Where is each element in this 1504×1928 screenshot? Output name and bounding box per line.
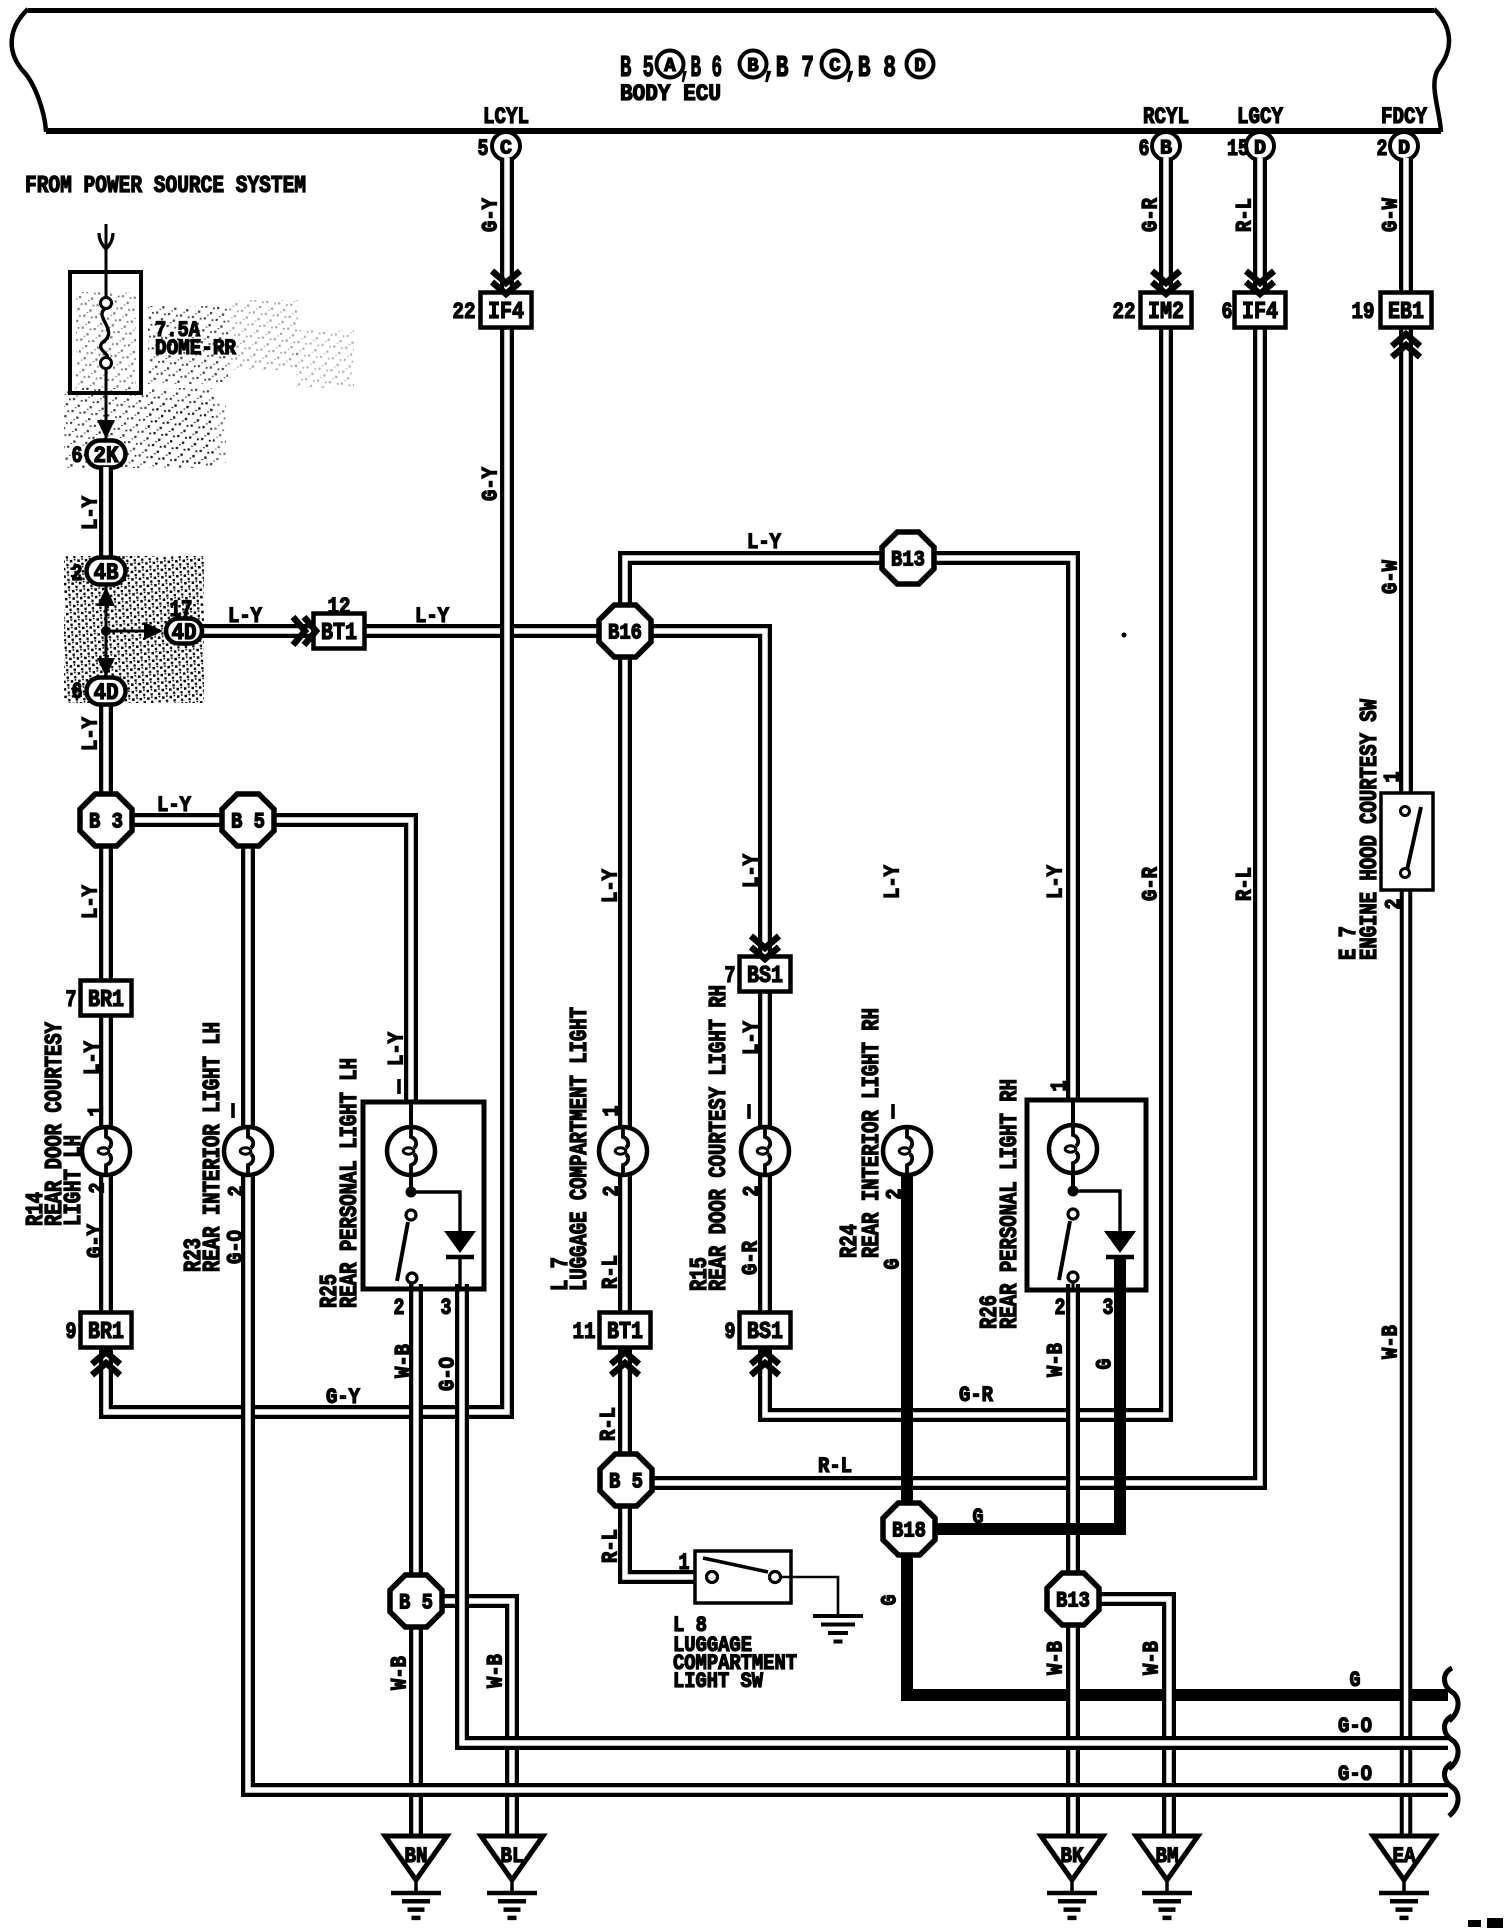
svg-text:17: 17	[170, 597, 193, 623]
svg-text:L-Y: L-Y	[81, 1040, 106, 1075]
svg-text:2: 2	[86, 1183, 111, 1194]
svg-text:DOME-RR: DOME-RR	[155, 336, 237, 361]
svg-text:L-Y: L-Y	[79, 884, 104, 919]
svg-text:G-R: G-R	[1139, 866, 1164, 901]
svg-text:REAR PERSONAL LIGHT RH: REAR PERSONAL LIGHT RH	[997, 1079, 1024, 1329]
svg-text:2: 2	[883, 1189, 908, 1200]
svg-text:3: 3	[441, 1295, 452, 1321]
svg-text:2: 2	[1382, 899, 1407, 910]
svg-text:12: 12	[328, 594, 351, 620]
svg-text:6: 6	[72, 679, 83, 705]
svg-text:4D: 4D	[94, 680, 119, 706]
svg-text:,B 8: ,B 8	[845, 51, 896, 86]
svg-text:B 5: B 5	[231, 810, 265, 835]
svg-text:ENGINE HOOD COURTESY SW: ENGINE HOOD COURTESY SW	[1357, 699, 1384, 960]
svg-text:6: 6	[1222, 299, 1233, 325]
svg-text:B13: B13	[891, 548, 925, 573]
svg-text:B 5: B 5	[399, 1591, 433, 1616]
svg-text:1: 1	[1048, 1081, 1073, 1092]
svg-text:2: 2	[600, 1186, 625, 1197]
svg-text:G-O: G-O	[1338, 1714, 1372, 1739]
svg-text:22: 22	[1113, 299, 1136, 325]
svg-text:L-Y: L-Y	[881, 864, 906, 899]
svg-text:C: C	[500, 138, 512, 161]
svg-text:IF4: IF4	[1242, 299, 1278, 326]
svg-text:R-L: R-L	[1233, 198, 1258, 232]
svg-text:EB1: EB1	[1388, 299, 1424, 326]
svg-text:IF4: IF4	[488, 299, 524, 326]
svg-text:A: A	[664, 55, 676, 77]
svg-text:G-O: G-O	[224, 1230, 249, 1264]
svg-text:B: B	[1160, 138, 1172, 161]
svg-text:LIGHT SW: LIGHT SW	[673, 1669, 764, 1694]
svg-text:REAR INTERIOR LIGHT LH: REAR INTERIOR LIGHT LH	[200, 1022, 227, 1272]
svg-text:L-Y: L-Y	[228, 604, 263, 629]
svg-text:B13: B13	[1056, 1589, 1090, 1614]
svg-text:BT1: BT1	[607, 1319, 643, 1346]
svg-text:9: 9	[725, 1319, 736, 1345]
svg-text:9: 9	[66, 1319, 77, 1345]
svg-text:IM2: IM2	[1148, 299, 1184, 326]
svg-text:L-Y: L-Y	[747, 530, 782, 555]
svg-text:G-O: G-O	[1338, 1762, 1372, 1787]
svg-text:REAR INTERIOR LIGHT RH: REAR INTERIOR LIGHT RH	[859, 1008, 886, 1258]
svg-text:1: 1	[600, 1106, 625, 1117]
svg-text:D: D	[914, 55, 925, 77]
svg-text:6: 6	[72, 443, 83, 469]
svg-text:BM: BM	[1156, 1844, 1179, 1869]
svg-text:1: 1	[85, 1106, 110, 1117]
svg-text:D: D	[1254, 138, 1266, 161]
svg-text:L-Y: L-Y	[415, 604, 450, 629]
svg-text:G-R: G-R	[1139, 197, 1164, 232]
svg-text:4B: 4B	[94, 560, 119, 586]
svg-text:G-R: G-R	[739, 1240, 764, 1275]
svg-text:G: G	[878, 1595, 903, 1606]
svg-text:BR1: BR1	[88, 987, 124, 1014]
svg-text:2: 2	[225, 1186, 250, 1197]
svg-text:LUGGAGE COMPARTMENT LIGHT: LUGGAGE COMPARTMENT LIGHT	[567, 1007, 594, 1291]
svg-text:B16: B16	[608, 621, 642, 646]
svg-text:R-L: R-L	[818, 1454, 852, 1479]
svg-text:2: 2	[1377, 136, 1388, 162]
svg-text:W-B: W-B	[1044, 1641, 1069, 1675]
svg-text:4D: 4D	[172, 620, 197, 646]
svg-text:G: G	[973, 1505, 984, 1530]
svg-text:5: 5	[478, 136, 489, 162]
svg-text:REAR PERSONAL LIGHT LH: REAR PERSONAL LIGHT LH	[337, 1058, 364, 1308]
svg-text:W-B: W-B	[484, 1654, 509, 1688]
svg-text:G-Y: G-Y	[326, 1385, 361, 1410]
svg-text:G-W: G-W	[1379, 559, 1404, 594]
svg-text:REAR DOOR COURTESY LIGHT RH: REAR DOOR COURTESY LIGHT RH	[706, 985, 733, 1291]
svg-text:L-Y: L-Y	[385, 1031, 410, 1066]
svg-text:BR1: BR1	[88, 1319, 124, 1346]
svg-text:BN: BN	[405, 1844, 428, 1869]
svg-text:L-Y: L-Y	[157, 793, 192, 818]
svg-text:G: G	[881, 1259, 906, 1270]
svg-text:G-Y: G-Y	[84, 1223, 109, 1258]
svg-text:BL: BL	[501, 1844, 524, 1869]
svg-text:2: 2	[1055, 1295, 1066, 1321]
svg-text:19: 19	[1352, 299, 1375, 325]
svg-text:B 3: B 3	[89, 810, 123, 835]
svg-text:W-B: W-B	[392, 1344, 417, 1378]
svg-text:,B 7: ,B 7	[763, 51, 814, 86]
svg-text:BK: BK	[1061, 1844, 1085, 1869]
svg-text:W-B: W-B	[388, 1656, 413, 1690]
svg-text:R-L: R-L	[599, 1255, 624, 1289]
svg-text:B18: B18	[892, 1519, 926, 1544]
svg-text:L-Y: L-Y	[79, 716, 104, 751]
svg-text:G: G	[1350, 1668, 1361, 1693]
svg-text:D: D	[1398, 138, 1410, 161]
svg-text:LGCY: LGCY	[1237, 104, 1283, 130]
svg-text:22: 22	[453, 299, 476, 325]
svg-text:W-B: W-B	[1140, 1641, 1165, 1675]
svg-text:RCYL: RCYL	[1143, 104, 1189, 130]
svg-text:G-W: G-W	[1379, 197, 1404, 232]
svg-text:EA: EA	[1393, 1844, 1417, 1869]
svg-text:G-Y: G-Y	[479, 197, 504, 232]
svg-text:11: 11	[573, 1319, 596, 1345]
svg-text:1: 1	[679, 1550, 690, 1576]
svg-text:LCYL: LCYL	[483, 104, 529, 130]
svg-text:BS1: BS1	[747, 963, 783, 990]
svg-text:LIGHT LH: LIGHT LH	[61, 1135, 88, 1226]
svg-text:G: G	[1093, 1359, 1118, 1370]
svg-text:BT1: BT1	[321, 620, 357, 647]
svg-text:W-B: W-B	[1044, 1343, 1069, 1377]
svg-text:R-L: R-L	[597, 1407, 622, 1441]
svg-text:6: 6	[1139, 136, 1150, 162]
svg-text:7: 7	[66, 987, 77, 1013]
svg-text:G-O: G-O	[436, 1357, 461, 1391]
svg-text:BODY ECU: BODY ECU	[620, 81, 721, 107]
svg-text:1: 1	[1381, 772, 1406, 783]
svg-text:W-B: W-B	[1379, 1325, 1404, 1359]
svg-text:3: 3	[1103, 1295, 1114, 1321]
svg-text:C: C	[829, 55, 840, 77]
svg-text:2K: 2K	[94, 443, 119, 469]
svg-text:BS1: BS1	[747, 1319, 783, 1346]
svg-text:G-R: G-R	[959, 1383, 994, 1408]
svg-text:B: B	[747, 55, 758, 77]
svg-text:2: 2	[740, 1186, 765, 1197]
svg-text:B 5: B 5	[609, 1470, 643, 1495]
svg-text:15: 15	[1227, 136, 1249, 162]
svg-text:L-Y: L-Y	[1044, 864, 1069, 899]
svg-text:2: 2	[394, 1295, 405, 1321]
svg-text:R-L: R-L	[1233, 867, 1258, 901]
svg-text:L-Y: L-Y	[740, 853, 765, 888]
svg-text:FROM POWER SOURCE SYSTEM: FROM POWER SOURCE SYSTEM	[25, 173, 306, 200]
svg-text:L-Y: L-Y	[740, 1020, 765, 1055]
svg-text:R-L: R-L	[599, 1529, 624, 1563]
svg-text:2: 2	[72, 561, 83, 587]
svg-text:L-Y: L-Y	[79, 495, 104, 530]
svg-text:G-Y: G-Y	[479, 466, 504, 501]
svg-text:L-Y: L-Y	[599, 868, 624, 903]
svg-text:FDCY: FDCY	[1381, 104, 1427, 130]
